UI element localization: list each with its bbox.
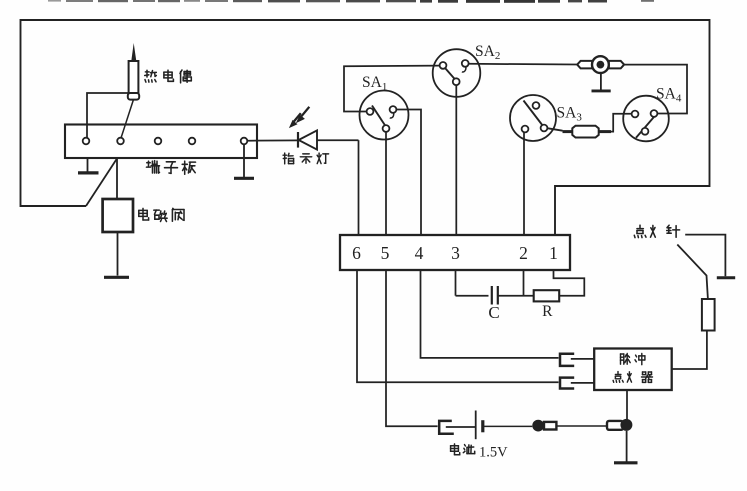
svg-text:3: 3 [451, 243, 460, 263]
svg-text:1.5V: 1.5V [479, 445, 508, 461]
svg-text:SA4: SA4 [656, 86, 682, 105]
svg-text:C: C [488, 303, 499, 322]
svg-text:6: 6 [352, 243, 361, 263]
svg-text:5: 5 [381, 243, 390, 263]
svg-text:SA1: SA1 [362, 74, 387, 93]
svg-text:2: 2 [519, 243, 528, 263]
svg-text:SA3: SA3 [557, 105, 583, 124]
svg-text:4: 4 [415, 243, 424, 263]
svg-text:SA2: SA2 [475, 43, 500, 62]
svg-text:1: 1 [549, 243, 558, 263]
svg-text:R: R [542, 303, 553, 320]
